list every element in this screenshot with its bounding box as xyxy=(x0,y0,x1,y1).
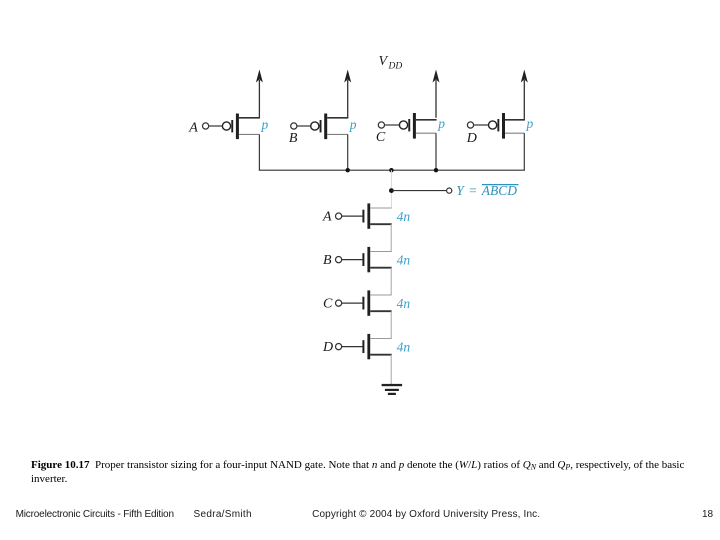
VDD arrow (QPD) xyxy=(521,70,528,83)
wire QNA source to QNB drain xyxy=(390,224,392,251)
svg-text:C: C xyxy=(323,297,333,312)
junction dot (node Y) xyxy=(389,188,394,193)
output terminal Y (open circle) xyxy=(447,188,452,193)
svg-text:A: A xyxy=(188,120,198,135)
pmos QPD xyxy=(489,113,525,139)
wire QPC source to VDD xyxy=(435,80,437,118)
junction dot (Y tap on rail) xyxy=(389,168,393,172)
junction dot (QPB drain on rail) xyxy=(346,168,350,172)
svg-text:D: D xyxy=(322,340,333,355)
svg-text:V: V xyxy=(379,54,389,69)
wire QPD source to VDD xyxy=(523,80,525,120)
input terminal C (QNC) xyxy=(323,297,362,312)
VDD net label xyxy=(379,54,403,72)
pmos QPB xyxy=(311,114,349,140)
wire QND source to ground xyxy=(390,355,392,385)
input terminal B (QPB) xyxy=(289,123,311,146)
wire QPB drain to output rail xyxy=(347,134,349,170)
svg-text:p: p xyxy=(437,116,445,131)
wire QPA drain to output rail xyxy=(258,134,260,170)
input terminal D (QPD) xyxy=(466,122,488,146)
ground xyxy=(382,384,403,395)
wire QNB source to QNC drain xyxy=(390,268,392,295)
footer: page number xyxy=(702,509,713,520)
svg-text:4n: 4n xyxy=(397,339,411,354)
input terminal A (QNA) xyxy=(322,210,362,225)
wire QPC drain to output rail xyxy=(435,133,437,170)
nmos QNB xyxy=(362,247,391,272)
svg-text:D: D xyxy=(466,131,477,146)
pmos QPC xyxy=(399,113,436,139)
input terminal A (QPA) xyxy=(188,120,222,135)
nmos QND xyxy=(362,334,391,359)
svg-text:A: A xyxy=(322,210,332,225)
wire QNC source to QND drain xyxy=(390,311,392,338)
svg-text:p: p xyxy=(526,116,534,131)
wire Y node to output terminal xyxy=(391,190,446,192)
svg-text:B: B xyxy=(323,253,332,268)
svg-text:4n: 4n xyxy=(397,252,411,267)
input terminal B (QNB) xyxy=(323,253,362,268)
node label Y = ABCD(bar) xyxy=(456,183,518,198)
svg-text:B: B xyxy=(289,131,298,146)
wire rail to Y node (faint) xyxy=(390,170,392,208)
wire output rail (PMOS drains common node) xyxy=(259,169,525,171)
VDD arrow (QPA) xyxy=(256,70,263,83)
svg-text:4n: 4n xyxy=(397,209,411,224)
input terminal D (QND) xyxy=(322,340,362,355)
footer: copyright xyxy=(312,509,540,520)
wire QPB source to VDD xyxy=(347,80,349,118)
VDD arrow (QPB) xyxy=(344,70,351,83)
pmos QPA xyxy=(222,114,260,140)
svg-text:C: C xyxy=(376,130,386,145)
VDD arrow (QPC) xyxy=(433,70,440,83)
input terminal C (QPC) xyxy=(376,122,399,145)
footer: authors xyxy=(194,509,252,520)
junction dot (QPC drain on rail) xyxy=(434,168,438,172)
nmos QNA xyxy=(362,203,391,228)
svg-text:p: p xyxy=(349,117,357,132)
wire QPA source to VDD xyxy=(258,80,260,118)
svg-text:4n: 4n xyxy=(397,296,411,311)
svg-text:DD: DD xyxy=(388,62,403,72)
footer: book title xyxy=(16,509,174,520)
svg-text:p: p xyxy=(261,117,269,132)
nmos QNC xyxy=(362,290,391,315)
wire QPD drain to output rail xyxy=(523,133,525,170)
figure caption xyxy=(31,458,720,487)
